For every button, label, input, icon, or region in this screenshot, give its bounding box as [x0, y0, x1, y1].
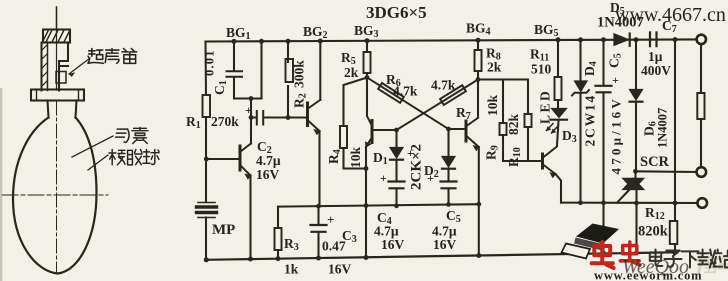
output terminal mid	[697, 167, 707, 177]
wire BG1 collector node	[250, 99, 252, 118]
wire R10 branch	[527, 80, 529, 162]
ultrasonic whistle stem	[56, 7, 58, 29]
wire C1 right branch	[260, 41, 262, 98]
junction dot R8 node	[476, 77, 481, 82]
wire R4 top diagonal	[344, 78, 368, 127]
zener diode D4 (2CW14)	[575, 81, 588, 92]
svg-text:MP: MP	[212, 222, 235, 238]
wire BG1 collector	[250, 118, 252, 144]
wire C3 branch	[317, 206, 319, 258]
svg-text:2CK×2: 2CK×2	[409, 144, 425, 190]
wire D2 to C5	[447, 169, 449, 182]
junction dot BG1 collector node	[249, 115, 254, 120]
svg-text:16V: 16V	[433, 237, 457, 252]
resistor R8	[475, 50, 482, 71]
junction dot R5 node	[365, 75, 370, 80]
transistor BG2	[306, 103, 309, 126]
output terminal bottom	[697, 198, 707, 208]
wire R6 diagonal	[367, 78, 449, 130]
svg-text:0.47: 0.47	[322, 239, 346, 254]
svg-text:270k: 270k	[211, 114, 239, 129]
resistor R6 (cross-coupled)	[378, 83, 404, 103]
diode D5 (on rail)	[614, 34, 629, 46]
wire C2 to BG2 base	[264, 116, 308, 118]
wire D1 to C4	[395, 161, 397, 181]
wire R9 branch	[503, 80, 528, 162]
gate bus wire to terminal	[561, 202, 697, 204]
site name char xia	[681, 251, 698, 267]
resistor R2	[286, 59, 294, 82]
wire BG4 emitter down	[478, 147, 480, 256]
junction dot BG3 base node	[394, 128, 399, 133]
svg-text:1k: 1k	[284, 262, 299, 277]
svg-text:470μ/16V: 470μ/16V	[609, 96, 624, 174]
svg-text:10k: 10k	[485, 95, 500, 117]
label qiu (rubber ball char3)	[143, 150, 159, 165]
transistor BG4	[465, 121, 468, 141]
wire BG2 collector	[319, 41, 321, 100]
wire C1 left branch	[233, 41, 235, 71]
svg-text:2k: 2k	[344, 65, 359, 80]
wire R12 branch	[674, 40, 676, 253]
svg-text:0.01: 0.01	[203, 49, 217, 76]
wire BG1 base	[206, 158, 239, 160]
site name char zhan	[714, 250, 728, 268]
svg-text:+: +	[380, 171, 387, 185]
whistle hatched cap	[43, 30, 70, 43]
wire BG2 emitter down	[318, 131, 320, 206]
wire BG5 base	[528, 160, 543, 162]
capacitor C5	[441, 182, 457, 189]
wire R5 branch	[366, 41, 368, 78]
faint watermark char ku	[715, 256, 728, 273]
wire D1 branch top	[395, 130, 397, 148]
wire load bottom	[700, 119, 702, 167]
svg-text:82k: 82k	[506, 114, 521, 136]
wire R2 branch	[287, 41, 289, 117]
leader line rubber-ball label	[88, 155, 108, 170]
junction dot C1 bottom node	[249, 96, 254, 101]
emitter bus wire	[278, 204, 479, 206]
capacitor C2	[257, 111, 263, 125]
wire BG3 collector	[366, 78, 368, 116]
junction dots gate bus	[578, 200, 583, 205]
junction dot SCR anode	[633, 169, 638, 174]
wire BG4 collector	[477, 80, 479, 118]
wire R11 branch	[557, 40, 559, 109]
leader line whistle label	[69, 58, 90, 74]
wire BG3 emitter down	[365, 147, 367, 258]
wire R3 branch	[277, 207, 279, 259]
wire load top	[700, 44, 702, 93]
svg-text:10k: 10k	[348, 147, 363, 169]
svg-text:+: +	[612, 73, 619, 87]
wire electrolytic C5b branch	[602, 40, 604, 253]
label jiao (rubber ball char2)	[128, 150, 142, 165]
svg-text:LED: LED	[538, 89, 553, 124]
junction dot BG1 base tap	[204, 157, 209, 162]
svg-text:www.4667.cn: www.4667.cn	[615, 4, 726, 26]
svg-text:2k: 2k	[487, 60, 502, 75]
capacitor C1	[227, 71, 243, 77]
label sheng (whistle char2)	[105, 49, 119, 64]
wire LED to BG5 collector	[557, 121, 559, 145]
bulb horizontal centerline	[2, 194, 108, 196]
junction dot R4 emitter tap	[364, 166, 369, 171]
diode D6	[630, 90, 643, 101]
whistle centerline	[56, 29, 58, 90]
svg-text:16V: 16V	[256, 167, 280, 182]
transistor BG5	[541, 154, 544, 168]
output terminal top	[697, 35, 706, 44]
junction dots emitter bus	[316, 204, 321, 209]
site name char zai	[697, 250, 715, 268]
resistor R3	[275, 228, 282, 250]
svg-text:4.7k: 4.7k	[431, 78, 456, 93]
junction dots bottom rail	[204, 257, 209, 262]
SCR cathode wire	[635, 190, 637, 253]
resistor R1	[203, 95, 211, 117]
capacitor C3	[311, 225, 327, 232]
wire D2 branch top	[447, 129, 449, 157]
logo red bug char2	[620, 242, 640, 265]
label qi (airbag char1)	[116, 129, 129, 142]
left rail wire mid	[205, 117, 207, 202]
svg-text:2CW14: 2CW14	[583, 94, 598, 147]
label chao (ultrasonic whistle char1)	[88, 49, 104, 64]
svg-text:510: 510	[531, 62, 552, 77]
whistle inner window	[56, 72, 66, 84]
wire R4 bottom elbow	[344, 148, 367, 169]
bottom ground rail	[206, 252, 678, 259]
wire C1 lead to loop bottom	[234, 77, 262, 99]
resistor R12	[670, 221, 678, 244]
wire R8 branch	[477, 40, 479, 79]
wire BG4 base	[449, 128, 466, 130]
logo red bug char1	[592, 242, 614, 268]
SCR gate wire	[617, 189, 631, 203]
diode D1	[390, 148, 403, 159]
wire node to C2	[251, 116, 256, 118]
site name char zi	[664, 250, 681, 266]
load resistor	[697, 93, 704, 119]
wire zener D4 branch	[579, 40, 581, 203]
top supply rail	[206, 39, 696, 41]
bulb neck	[48, 101, 77, 118]
faint watermark char wei	[697, 256, 714, 273]
whistle body	[42, 43, 69, 91]
svg-text:16V: 16V	[381, 237, 405, 252]
rubber bulb outline	[13, 118, 97, 274]
svg-text:SCR: SCR	[640, 154, 670, 170]
microphone MP	[198, 202, 215, 204]
LED D3	[552, 109, 567, 118]
svg-text:400V: 400V	[641, 63, 671, 78]
resistor R4	[340, 126, 347, 148]
label di (whistle char3)	[122, 49, 137, 64]
svg-text:16V: 16V	[328, 262, 352, 277]
resistor R7 (cross-coupled)	[397, 80, 479, 131]
left rail wire bottom	[205, 218, 207, 260]
wire C4 to emitter bus	[395, 190, 397, 206]
transistor BG1	[239, 146, 242, 170]
svg-text:1N4007: 1N4007	[656, 108, 670, 148]
resistor R11	[555, 77, 562, 100]
bulb vertical centerline	[56, 101, 58, 273]
junction dot R2 base node	[286, 115, 291, 120]
junction dot BG4 base node	[446, 127, 451, 132]
wire BG1 emitter down	[249, 176, 251, 260]
resistor R5	[364, 52, 371, 73]
wire BG5 emitter elbow	[556, 174, 562, 203]
svg-text:300k: 300k	[292, 60, 307, 88]
svg-text:+: +	[245, 103, 252, 117]
SCR anode wire to terminal	[636, 170, 697, 173]
resistor R9	[500, 123, 507, 135]
svg-text:+: +	[327, 212, 334, 227]
SCR thyristor	[623, 178, 645, 190]
svg-text:4.7k: 4.7k	[393, 84, 418, 99]
wire R9 R10 feed	[478, 78, 528, 80]
resistor R10	[525, 114, 532, 127]
label xiang (rubber ball char1)	[109, 150, 125, 165]
wire D6 branch	[635, 40, 637, 172]
wire BG3 base	[373, 129, 397, 131]
label nang (airbag char2)	[132, 128, 148, 144]
svg-text:1μ: 1μ	[648, 49, 663, 64]
svg-text:www.eeworm.com: www.eeworm.com	[594, 269, 702, 281]
svg-text:3DG6×5: 3DG6×5	[366, 3, 427, 22]
svg-text:820k: 820k	[638, 224, 669, 240]
capacitor C7 (on rail)	[650, 33, 657, 47]
diode D2	[442, 157, 455, 168]
capacitor C4	[389, 182, 405, 189]
svg-text:+: +	[427, 171, 434, 185]
logo black cap	[576, 224, 619, 244]
scan smudge left edge	[0, 88, 2, 281]
site name char dian	[650, 250, 663, 266]
junction dots top rail	[232, 39, 237, 44]
electrolytic cap 470u	[596, 86, 612, 93]
wire C5 to emitter bus	[447, 190, 449, 204]
rail stub into terminal1	[695, 38, 698, 40]
transistor BG3	[371, 121, 374, 143]
leader line airbag label	[72, 136, 113, 157]
SCR anode lead	[634, 171, 636, 177]
left rail wire top	[204, 42, 207, 96]
svg-text:4.7μ: 4.7μ	[256, 153, 281, 168]
collar flange	[31, 90, 84, 101]
